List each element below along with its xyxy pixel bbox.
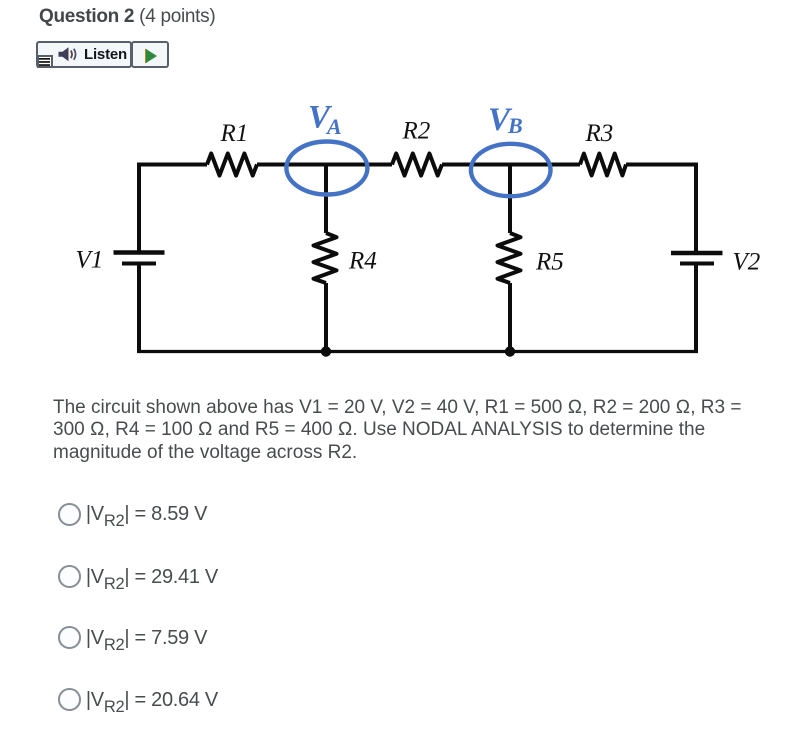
svg-text:B: B (507, 113, 523, 138)
play button (131, 41, 169, 68)
svg-text:A: A (325, 114, 342, 139)
wire node B stub (508, 165, 512, 234)
listen toolbar (36, 41, 172, 69)
wire bottom rail (137, 350, 698, 353)
svg-text:V1: V1 (76, 247, 104, 274)
junction node B dot (505, 346, 515, 356)
wire right branch lower (694, 264, 698, 351)
option 1 (57, 502, 59, 504)
node VA ellipse (286, 142, 367, 195)
option 2 (57, 564, 59, 566)
wire left branch lower (137, 264, 141, 351)
speaker icon (58, 47, 80, 62)
listen label (84, 46, 127, 63)
wire node A stub (324, 165, 328, 234)
circuit schematic (0, 0, 791, 380)
question paragraph (53, 397, 741, 465)
battery V2 (671, 253, 723, 264)
junction node A dot (321, 346, 331, 356)
option 4 (57, 687, 59, 689)
wire left branch upper (137, 163, 141, 253)
svg-text:R3: R3 (585, 120, 614, 147)
play triangle (145, 49, 159, 63)
wire top rail left segment (137, 163, 207, 167)
wire R4 to bottom (324, 283, 328, 351)
battery V1 (114, 253, 165, 264)
resistor R1 (207, 154, 257, 176)
listen button (36, 41, 132, 68)
wire VA node segment (257, 163, 392, 167)
resistor R3 (580, 154, 626, 176)
svg-text:V2: V2 (733, 249, 761, 276)
wire top rail right segment (626, 163, 698, 167)
resistor R2 (392, 154, 442, 176)
wire right branch upper (694, 163, 698, 254)
svg-text:R2: R2 (402, 118, 431, 145)
svg-text:R5: R5 (535, 249, 564, 276)
node VB ellipse (471, 144, 551, 196)
svg-text:R4: R4 (348, 248, 377, 275)
resistor R5 (498, 233, 521, 283)
resistor R4 (314, 233, 337, 283)
wire VB node segment (442, 163, 580, 167)
svg-text:R1: R1 (220, 120, 249, 147)
wire R5 to bottom (508, 283, 512, 351)
question header (39, 6, 215, 28)
option 3 (57, 625, 59, 627)
menu box (37, 55, 53, 68)
